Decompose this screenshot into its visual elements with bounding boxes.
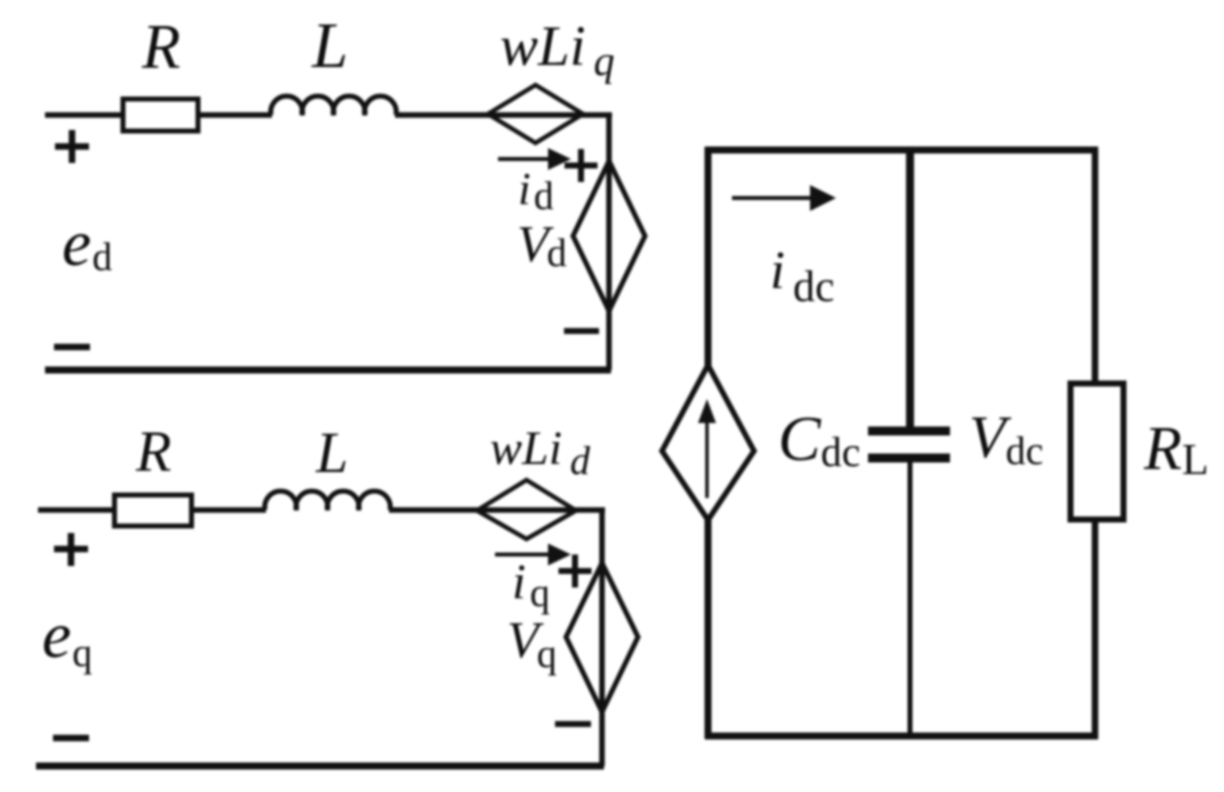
- plus sign eq: [54, 533, 88, 566]
- wire dc bottom: [705, 733, 1098, 740]
- capacitor Cdc plates: [868, 427, 950, 436]
- svg-text:ed: ed: [62, 207, 112, 280]
- svg-text:L: L: [311, 10, 348, 82]
- plus sign ed: [55, 130, 89, 163]
- wire q bottom: [36, 763, 604, 770]
- wire d top: [45, 112, 612, 118]
- wire capacitor lower stem: [908, 462, 913, 736]
- svg-text:Cdc: Cdc: [778, 403, 860, 476]
- wire d bottom: [45, 367, 611, 374]
- current arrow idc: [732, 196, 814, 200]
- dependent source Vq diamond: [566, 563, 638, 712]
- svg-text:Vdc: Vdc: [969, 404, 1043, 473]
- wire dc top: [705, 147, 1098, 154]
- svg-text:eq: eq: [42, 599, 92, 675]
- svg-text:idc: idc: [770, 240, 835, 311]
- plus sign Vq: [559, 555, 592, 588]
- dependent source Vd diamond: [573, 161, 645, 311]
- svg-text:wLid: wLid: [490, 422, 591, 483]
- wire dc left upper: [705, 147, 712, 367]
- current arrow iq: [495, 553, 550, 557]
- minus sign Vq: [555, 721, 591, 727]
- svg-text:RL: RL: [1143, 415, 1209, 484]
- resistor R (q): [115, 495, 192, 526]
- current arrow id: [498, 157, 552, 161]
- arrow in source idc: [705, 420, 709, 498]
- inductor L (q): [265, 491, 391, 510]
- wire dc left lower: [705, 518, 712, 739]
- wire q right vertical: [599, 508, 605, 766]
- inductor L (d): [271, 96, 397, 115]
- svg-text:R: R: [141, 12, 180, 82]
- plus sign Vd: [565, 149, 598, 182]
- dependent source wLid diamond: [477, 480, 576, 539]
- dependent source wLiq diamond: [488, 85, 583, 143]
- svg-text:Vq: Vq: [507, 612, 557, 676]
- wire d right vertical: [606, 113, 612, 370]
- svg-text:R: R: [135, 419, 171, 484]
- resistor RL: [1071, 384, 1124, 520]
- svg-text:Vd: Vd: [517, 216, 567, 275]
- minus sign eq: [53, 735, 89, 742]
- svg-text:id: id: [518, 163, 554, 218]
- minus sign ed: [54, 344, 90, 351]
- dependent current source idc diamond: [662, 365, 754, 520]
- wire dc right lower: [1092, 519, 1099, 739]
- svg-text:L: L: [315, 420, 348, 485]
- svg-text:wLiq: wLiq: [500, 15, 615, 85]
- wire q top: [38, 507, 605, 513]
- resistor R (d): [123, 99, 198, 131]
- svg-text:iq: iq: [512, 553, 550, 615]
- minus sign Vd: [564, 328, 599, 334]
- wire dc right upper: [1092, 147, 1099, 384]
- wire capacitor upper stem: [906, 150, 914, 428]
